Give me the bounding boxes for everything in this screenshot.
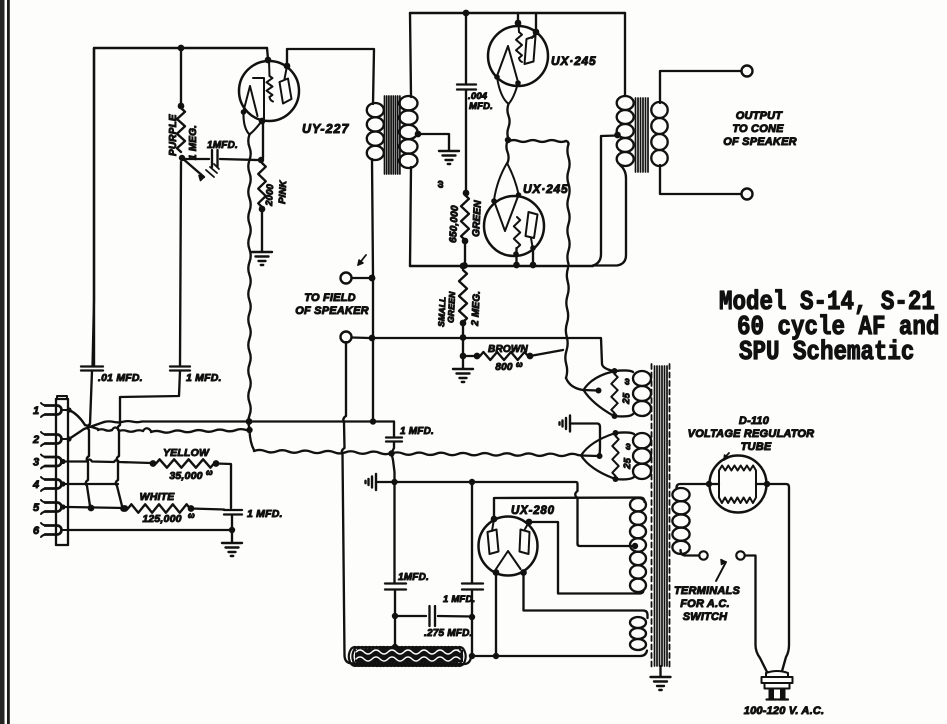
wire rail corner down with hop: [575, 482, 577, 544]
svg-text:25: 25: [622, 457, 634, 470]
resistor R 650,000 GREEN: [461, 195, 469, 240]
wire straight heater line: [69, 422, 104, 439]
svg-text:D-110: D-110: [739, 415, 770, 427]
svg-text:UX·245: UX·245: [551, 54, 597, 68]
node V3 pin right top: [526, 519, 533, 526]
wire wiper arrow to chassis: [182, 158, 204, 177]
svg-text:1MFD.: 1MFD.: [207, 140, 238, 151]
ground below brown: [462, 357, 464, 368]
svg-text:6: 6: [33, 525, 40, 537]
plate of V1: [532, 32, 536, 38]
heater zigzag inside UY-227: [268, 61, 271, 76]
node mid cap to heater return: [388, 450, 394, 456]
capacitor C 1MFD left: [180, 162, 181, 366]
wavy heater branch to hum pot: [509, 140, 566, 142]
wire rail-2 over UY-227 to interstage: [287, 49, 374, 104]
tube V1 UX-245 envelope: [488, 26, 548, 86]
winding pot2: [633, 433, 651, 448]
svg-text:1MFD.: 1MFD.: [398, 572, 429, 583]
svg-text:100-120 V. A.C.: 100-120 V. A.C.: [744, 705, 824, 717]
wire terminal 1 diagonal: [69, 410, 85, 425]
node 650k top: [463, 190, 470, 197]
transformer T1 secondary winding: [400, 96, 418, 110]
grid structure V1: [497, 46, 518, 82]
wire V3 plate2 line: [529, 522, 644, 594]
wire tap to ground: [418, 134, 449, 150]
svg-text:ω: ω: [435, 180, 445, 188]
transformer T3 rectifier filament winding: [630, 617, 646, 628]
wire T1 primary bottom lead: [372, 159, 373, 276]
svg-text:1 MFD.: 1 MFD.: [400, 426, 434, 437]
wire stub rail to V1 heater: [517, 13, 519, 22]
resistor R YELLOW 35,000: [156, 459, 214, 467]
zigzag pot2: [612, 436, 618, 476]
node grid-leak junction: [179, 155, 185, 161]
transformer T3 HV secondary winding: [630, 498, 646, 511]
wire top rail left section: [94, 48, 267, 366]
svg-text:ω: ω: [206, 468, 213, 477]
svg-text:ω: ω: [516, 360, 523, 369]
svg-text:2: 2: [32, 434, 39, 446]
ground chassis to wiper pot2: [569, 416, 571, 432]
wire push-pull bottom rail: [410, 265, 593, 267]
svg-text:2 MEG.: 2 MEG.: [470, 291, 483, 328]
resistor R 2 MEG small green: [462, 266, 464, 269]
wire stub rail to V1 plate: [535, 13, 537, 31]
node pot1 top: [612, 368, 618, 374]
svg-text:650,000: 650,000: [448, 205, 461, 243]
tube V2 UX-245 envelope: [484, 196, 544, 256]
wire .004 stem upper: [465, 13, 467, 83]
wire V3 cathode right to fil winding: [524, 573, 648, 618]
node 650k bottom: [462, 238, 469, 245]
svg-text:UX·245: UX·245: [523, 182, 569, 196]
node yellow right: [213, 460, 220, 467]
wire terminal 2 diagonal: [66, 436, 71, 441]
svg-text:SWITCH: SWITCH: [683, 611, 728, 623]
wavy grid lead V1 down: [507, 104, 509, 139]
node .004 top: [463, 10, 470, 17]
node pot1 bottom: [612, 413, 618, 419]
svg-text:WHITE: WHITE: [140, 491, 176, 503]
wire V3 cathode left down: [495, 573, 497, 655]
wire terminal 6: [69, 529, 232, 531]
terminal switch right: [736, 551, 744, 559]
node heater junction mid: [246, 427, 252, 433]
svg-text:25: 25: [621, 392, 633, 405]
node field-line junction: [370, 418, 376, 424]
ballast resistor inside D-110: [719, 466, 756, 504]
hum pot lower leaf: [581, 434, 614, 479]
node T1 secondary tap: [415, 131, 422, 138]
svg-text:BROWN: BROWN: [488, 344, 528, 355]
chassis hatch marks: [206, 164, 219, 177]
plate of UY-227: [285, 66, 288, 79]
wire yellow to cap: [216, 464, 231, 509]
wire primary bottom to switch: [681, 550, 699, 556]
ground below core: [659, 666, 661, 676]
node HV center tap: [632, 543, 638, 549]
svg-text:TUBE: TUBE: [741, 441, 772, 453]
svg-text:2000: 2000: [264, 183, 276, 207]
wire tap to bottom rail: [593, 136, 618, 266]
wire to HV center tap: [578, 544, 634, 546]
wire heater return drop to rail: [392, 454, 395, 482]
terminal output lower: [742, 189, 753, 200]
capacitor C 1MFD grid: [184, 158, 209, 160]
svg-text:TO CONE: TO CONE: [732, 123, 784, 135]
svg-text:1 MFD.: 1 MFD.: [186, 372, 222, 384]
wire rail stub to UY-227 heater: [267, 48, 268, 59]
svg-text:1 MEG.: 1 MEG.: [188, 125, 199, 160]
svg-text:OF SPEAKER: OF SPEAKER: [723, 136, 797, 148]
transformer T1 core: [384, 96, 386, 174]
wire B rail: [395, 481, 577, 483]
wire cap to ground: [231, 515, 233, 530]
svg-text:PURPLE: PURPLE: [168, 114, 179, 156]
wire left vertical to choke: [342, 342, 352, 664]
arrow at field terminal: [358, 255, 366, 265]
capacitor C 1MFD filter-b: [393, 482, 395, 583]
title Model S-14 S-21: [719, 289, 935, 318]
svg-text:1: 1: [33, 405, 39, 417]
capacitor C 1MFD strip: [191, 509, 224, 510]
svg-text:PINK: PINK: [277, 179, 289, 204]
terminal forks 1-6: [45, 406, 62, 415]
svg-text:1 MFD.: 1 MFD.: [443, 594, 475, 605]
wire V2 plate to rail: [532, 248, 534, 265]
svg-text:ω: ω: [622, 378, 631, 385]
choke scribble winding: [352, 662, 464, 665]
wire brown to cathode wavy: [530, 350, 563, 356]
wire D-110 right to plug: [767, 484, 789, 673]
svg-text:5: 5: [33, 502, 40, 514]
node T2 primary tap: [614, 132, 621, 139]
wire rail to T2 primary top: [624, 13, 626, 96]
terminal strip bar: [56, 399, 68, 545]
plug body: [766, 671, 788, 677]
svg-text:OUTPUT: OUTPUT: [736, 110, 784, 122]
wire field bus horizontal: [372, 338, 614, 371]
wire cathode down to junction: [262, 122, 264, 158]
transformer T2 output primary winding: [617, 96, 634, 110]
svg-text:MFD.: MFD.: [469, 101, 493, 112]
svg-text:YELLOW: YELLOW: [163, 447, 210, 459]
wavy pair terminal to mid (upper strand): [85, 425, 98, 429]
plate left of V3: [488, 530, 499, 555]
node yellow left: [150, 460, 157, 467]
wire D-110 left to primary: [677, 484, 710, 489]
resistor R-PURPLE 1 MEG: [177, 108, 185, 152]
node rail-heater drop: [391, 479, 397, 485]
node choke top: [392, 644, 398, 650]
wire T1 secondary bottom lead: [410, 167, 411, 266]
node cathode-grid junction: [258, 157, 264, 163]
wavy bus to V2: [506, 141, 508, 163]
ground chassis at rail left: [375, 474, 377, 490]
wavy heater lead long vertical: [248, 135, 250, 428]
plate right of V3: [520, 530, 530, 555]
wire push-pull top rail: [410, 12, 625, 14]
node R purple top: [178, 103, 185, 110]
wire terminal 3 to yellow: [69, 460, 151, 464]
node rail-purple junction: [178, 45, 185, 52]
svg-text:GREEN: GREEN: [471, 199, 484, 237]
svg-text:TERMINALS: TERMINALS: [674, 585, 740, 597]
svg-text:1 MFD.: 1 MFD.: [247, 508, 283, 520]
node V3 pin left bottom: [493, 569, 500, 576]
filament of V3: [496, 551, 521, 569]
wire 1mfd jog to terminals: [116, 371, 180, 506]
heater zigzag inside V1: [518, 24, 521, 32]
wavy heater return to hum pot: [250, 430, 255, 450]
plug prongs: [769, 689, 775, 700]
wiper pot1: [584, 389, 598, 392]
capacitor C 1MFD filter-a: [471, 482, 473, 583]
capacitor C .004 MFD: [457, 83, 476, 85]
node heater bus junction: [505, 137, 511, 143]
svg-text:.01 MFD.: .01 MFD.: [98, 372, 143, 384]
grid lead loop below UY-227: [243, 112, 261, 135]
node white right: [188, 505, 195, 512]
wire secondary bottom to terminal: [660, 165, 741, 194]
wire V2 heater to rail: [513, 251, 519, 257]
grid structure V2: [494, 195, 519, 231]
wiper pot2: [581, 454, 598, 457]
node filter junction a: [469, 614, 475, 620]
terminal field lower: [341, 332, 352, 343]
svg-text:UX-280: UX-280: [511, 505, 555, 517]
capacitor C .275 MFD: [395, 615, 426, 617]
tube V3 UX-280 envelope: [479, 517, 538, 576]
capacitor C 1MFD mid: [393, 422, 395, 437]
svg-text:4: 4: [32, 479, 39, 491]
ground below R2000: [252, 251, 272, 253]
wire .004 to 650k: [465, 90, 467, 192]
node D-110 left: [706, 481, 712, 487]
svg-text:ω: ω: [623, 443, 632, 450]
node brown left: [460, 353, 467, 360]
wire terminal 5 white line: [69, 507, 124, 508]
terminal switch left: [699, 551, 707, 559]
ground below T1 tap: [439, 150, 459, 152]
resistor R-2000 PINK: [258, 163, 266, 207]
grid structure UY-227: [244, 86, 258, 116]
node pot2 bottom: [613, 476, 619, 482]
node V3 pin left top: [491, 516, 498, 523]
svg-text:ω: ω: [188, 511, 195, 520]
transformer T1 interstage primary winding: [367, 103, 384, 117]
node white left: [122, 505, 129, 512]
terminal output upper: [742, 66, 753, 77]
svg-text:GREEN: GREEN: [446, 291, 458, 323]
node filter junction b: [392, 613, 398, 619]
grid lead cone above V2: [494, 163, 519, 200]
svg-text:VOLTAGE REGULATOR: VOLTAGE REGULATOR: [688, 428, 815, 440]
zigzag pot1: [611, 374, 617, 413]
node R2000 bottom: [259, 206, 266, 213]
svg-text:800: 800: [495, 362, 513, 373]
svg-text:SPU Schematic: SPU Schematic: [739, 339, 914, 368]
svg-text:125,000: 125,000: [142, 513, 181, 525]
tube V4 D-110 envelope: [710, 456, 767, 513]
wire purple branch: [180, 48, 182, 106]
wire T1 secondary top lead: [410, 13, 411, 97]
transformer T3 core: [651, 364, 653, 668]
hum pot upper leaf: [584, 372, 614, 416]
svg-text:3: 3: [33, 457, 39, 469]
ground below strip cap: [222, 542, 242, 544]
transformer T3 primary winding: [672, 488, 689, 501]
svg-text:OF SPEAKER: OF SPEAKER: [295, 305, 369, 317]
node rail filter cap: [469, 479, 475, 485]
wire terminal 4: [69, 483, 118, 485]
svg-text:.275 MFD.: .275 MFD.: [424, 628, 472, 639]
wire secondary top to terminal: [660, 71, 741, 103]
transformer T2 core: [635, 98, 637, 172]
tube U1 UY-227 envelope: [239, 61, 299, 121]
plate of V2: [526, 212, 538, 238]
terminal field upper: [341, 273, 352, 284]
wire 2meg to brown junction: [462, 338, 464, 355]
winding pot1: [633, 371, 651, 386]
node V3 pin right bottom: [520, 569, 527, 576]
node pot2 top: [613, 430, 619, 436]
capacitor C .01 MFD: [93, 48, 95, 366]
node ground junction strip: [229, 527, 235, 533]
arrow terminals pointer: [716, 562, 726, 581]
transformer T2 secondary winding: [651, 102, 667, 118]
cathode of UY-227: [253, 78, 264, 120]
wire switch to plug left: [745, 556, 768, 674]
svg-text:TO FIELD: TO FIELD: [304, 292, 356, 304]
svg-text:FOR A.C.: FOR A.C.: [680, 598, 729, 610]
wire T2 primary bottom lead: [593, 165, 626, 266]
svg-text:UY-227: UY-227: [302, 122, 350, 136]
node D-110 right: [764, 481, 770, 487]
wavy crossing rail hop: [565, 268, 568, 378]
page edge line (left border): [0, 0, 5, 724]
grid lead cone below V1: [497, 77, 518, 104]
wire R2000 to ground: [261, 209, 263, 251]
svg-text:35,000: 35,000: [169, 470, 202, 482]
wire V3 plate1 line: [494, 498, 645, 520]
resistor R WHITE 125,000: [128, 504, 190, 512]
heater zigzag inside V2: [514, 217, 520, 248]
resistor R BROWN 800: [463, 355, 476, 357]
wire long vertical from T1: [372, 276, 374, 420]
wire .01 down to white line: [86, 371, 92, 506]
wire bottom rail filter: [472, 651, 647, 657]
